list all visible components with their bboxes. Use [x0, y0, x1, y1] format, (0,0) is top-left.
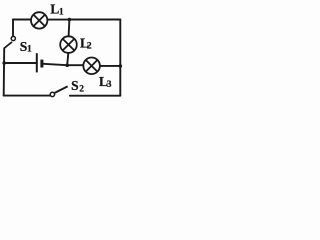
wire battery left — [4, 62, 37, 64]
wire top middle — [47, 19, 69, 21]
wire right border — [119, 20, 121, 96]
node top junction — [68, 18, 72, 22]
label S2 — [71, 78, 84, 94]
battery cell plates — [37, 53, 42, 72]
wire L2 upper — [68, 20, 71, 37]
wire L3 to right border — [100, 65, 120, 67]
switch S2 — [50, 86, 67, 96]
svg-text:2: 2 — [87, 41, 92, 51]
lamp L2 — [60, 36, 77, 53]
wire top left — [13, 19, 31, 21]
svg-text:1: 1 — [59, 7, 64, 17]
wire top right — [69, 19, 120, 21]
wire L2 lower — [67, 53, 68, 65]
node right-border junction — [119, 64, 123, 68]
label L2 — [80, 35, 92, 51]
label S1 — [20, 39, 32, 55]
lamp L1 — [31, 12, 47, 28]
label L1 — [50, 1, 64, 17]
wire left border — [3, 49, 5, 96]
wire S1 upper stub — [12, 20, 14, 37]
switch S1 — [4, 36, 16, 48]
lamp L3 — [83, 58, 100, 75]
svg-text:2: 2 — [79, 84, 84, 94]
svg-text:1: 1 — [27, 45, 32, 55]
wire bottom left — [4, 95, 51, 97]
node battery-left junction — [2, 61, 6, 65]
wire battery right — [43, 64, 67, 65]
wire node to L3 — [67, 64, 83, 66]
node L2-bottom junction — [65, 63, 69, 67]
svg-text:3: 3 — [107, 80, 112, 90]
label L3 — [99, 74, 112, 90]
svg-text:S: S — [71, 78, 79, 93]
wire bottom right — [70, 95, 120, 97]
